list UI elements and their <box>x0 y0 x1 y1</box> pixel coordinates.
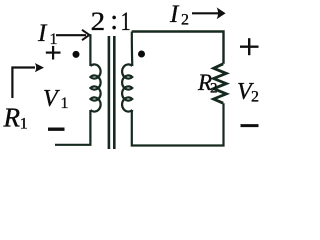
wire: right rail lower, bottom wire, secondary bottom feed <box>132 103 224 145</box>
svg-text:1: 1 <box>20 116 28 133</box>
arrow R1 (current direction indicator) <box>12 63 44 98</box>
wire: secondary loop top, right rail upper <box>132 32 224 64</box>
transformer core line left <box>108 36 111 149</box>
plus sign V2 <box>240 38 259 55</box>
transformer core line right <box>113 36 116 149</box>
resistor R2 zigzag <box>214 64 227 103</box>
svg-text:I: I <box>37 20 48 47</box>
polarity dot primary <box>73 51 80 58</box>
wire: primary bottom feed and bottom lead <box>55 110 90 145</box>
svg-text:I: I <box>169 1 180 28</box>
label R2 <box>197 70 218 97</box>
label I1 <box>37 20 58 48</box>
label V2 <box>237 79 259 106</box>
label 2 : 1 (turns ratio) <box>91 5 131 36</box>
svg-text:1: 1 <box>61 95 69 112</box>
svg-text:R: R <box>3 103 21 133</box>
minus sign V1 <box>48 127 65 130</box>
polarity dot secondary <box>138 51 145 58</box>
svg-text:2: 2 <box>251 89 259 106</box>
svg-text:2: 2 <box>210 81 218 97</box>
svg-text:2: 2 <box>91 7 106 36</box>
wire: secondary top feed <box>131 32 134 67</box>
svg-text:2: 2 <box>181 11 189 28</box>
arrow I2 (secondary current) <box>192 7 226 19</box>
label I2 <box>169 1 189 28</box>
inductor L2 secondary winding (4 loops) <box>122 64 132 111</box>
svg-text:1: 1 <box>121 7 131 36</box>
label V1 <box>43 86 69 112</box>
wire: primary top stub from arrow to rail corner <box>89 35 91 66</box>
svg-text::: : <box>110 5 118 36</box>
svg-text:V: V <box>43 86 60 112</box>
minus sign V2 <box>241 124 259 127</box>
svg-text:1: 1 <box>50 31 58 48</box>
inductor L1 primary winding (4 loops) <box>90 64 100 111</box>
arrow I1 (current into primary) <box>56 30 89 40</box>
plus sign V1 <box>46 46 61 60</box>
label R1 <box>3 103 28 133</box>
